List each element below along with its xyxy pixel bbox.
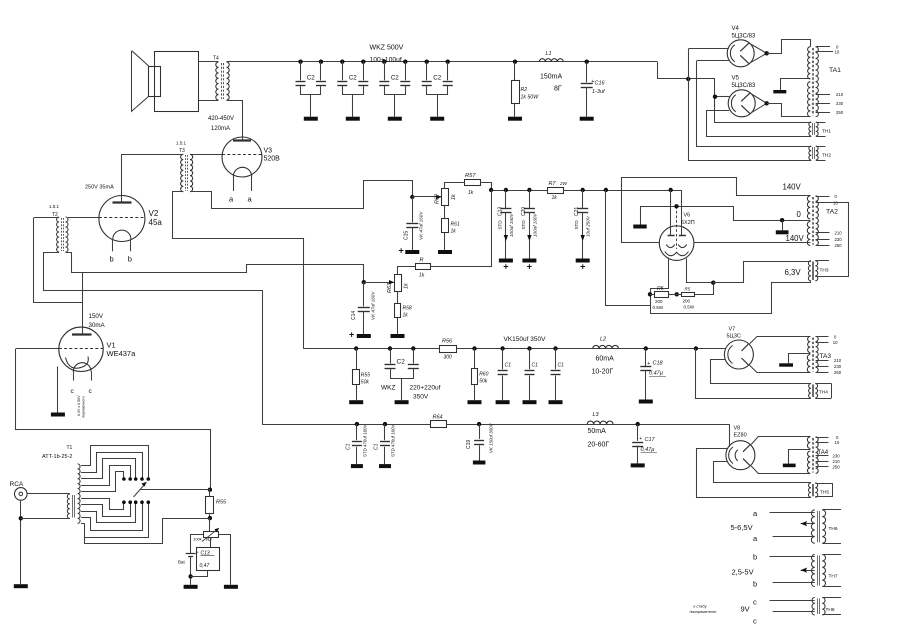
svg-text:8Г: 8Г [554,86,562,93]
svg-text:C2: C2 [397,359,406,366]
svg-text:6Х2П: 6Х2П [681,220,695,226]
svg-text:STD: STD [574,220,579,230]
svg-text:350V: 350V [413,394,429,401]
svg-text:T1: T1 [67,445,73,451]
svg-text:TA3: TA3 [820,353,832,360]
svg-text:210: 210 [835,230,843,235]
svg-text:RCA: RCA [10,481,24,488]
svg-text:+: + [503,262,508,272]
svg-text:R63: R63 [387,282,393,293]
svg-text:2,5-5V: 2,5-5V [732,568,754,577]
svg-text:VK 150uf 350V: VK 150uf 350V [489,422,494,453]
svg-text:+: + [580,262,585,272]
svg-text:VK150uf 350V: VK150uf 350V [504,336,547,343]
svg-text:C16: C16 [595,81,606,87]
svg-text:R56: R56 [442,339,453,345]
svg-text:R5: R5 [685,286,691,291]
svg-text:TH2: TH2 [822,153,831,159]
svg-text:1k: 1k [404,283,410,289]
svg-text:b: b [753,580,757,589]
svg-text:230: 230 [835,237,843,242]
svg-text:1.5:1: 1.5:1 [49,204,60,209]
svg-text:переменного: переменного [82,396,86,418]
svg-text:C18: C18 [653,361,664,367]
svg-text:VK 47uf 160V: VK 47uf 160V [419,211,424,240]
svg-text:C15: C15 [404,231,410,240]
svg-text:L3: L3 [593,412,600,418]
svg-text:TH7: TH7 [829,574,838,580]
svg-text:120mA: 120mA [211,126,230,132]
svg-text:230: 230 [836,101,844,106]
svg-text:EZ80: EZ80 [734,433,747,439]
svg-text:0.5W: 0.5W [653,305,664,310]
svg-text:1k: 1k [451,229,457,235]
svg-text:1k: 1k [403,313,409,319]
svg-text:C19: C19 [466,440,472,449]
svg-text:2W: 2W [559,181,568,186]
svg-text:TH6: TH6 [829,526,838,532]
svg-text:C1: C1 [346,443,352,450]
svg-text:1.5:1: 1.5:1 [176,141,187,146]
svg-text:0: 0 [797,210,802,219]
svg-text:C2: C2 [433,75,441,82]
svg-text:100k: 100k [193,537,203,542]
svg-text:b: b [128,255,132,264]
svg-text:210: 210 [836,92,844,97]
svg-text:C1: C1 [505,363,512,369]
svg-text:520B: 520B [264,156,281,163]
svg-text:WE437a: WE437a [107,349,137,358]
svg-text:T4: T4 [213,56,219,62]
svg-text:1k 50W: 1k 50W [521,95,540,101]
svg-text:T3: T3 [179,148,185,154]
svg-text:V5: V5 [732,76,740,82]
svg-text:C17: C17 [645,437,656,443]
svg-text:Bat: Bat [178,560,186,565]
svg-text:C1: C1 [558,363,565,369]
svg-text:140V: 140V [783,183,802,192]
svg-text:30mA: 30mA [89,322,106,329]
svg-text:1k: 1k [419,273,425,279]
svg-text:C2: C2 [391,75,399,82]
svg-text:R61: R61 [451,222,460,228]
svg-text:5-6,5V: 5-6,5V [731,523,753,532]
svg-text:200: 200 [655,299,663,304]
svg-text:220+220uf: 220+220uf [410,385,441,392]
svg-text:C2: C2 [307,75,315,82]
svg-text:420-450V: 420-450V [208,116,234,122]
svg-text:0.47µ: 0.47µ [649,371,663,377]
svg-text:R7: R7 [549,181,557,187]
svg-text:50k: 50k [361,380,370,386]
svg-text:TH1: TH1 [822,129,831,135]
svg-text:к стабу: к стабу [694,604,707,609]
svg-text:R: R [420,258,424,264]
svg-text:R5: R5 [657,286,664,292]
svg-text:V7: V7 [729,327,736,333]
svg-text:+: + [349,330,354,340]
svg-text:+: + [527,262,532,272]
svg-text:0,47µ: 0,47µ [641,447,655,453]
svg-text:C1: C1 [374,443,380,450]
svg-text:10: 10 [833,340,838,345]
svg-text:WKZ 500V: WKZ 500V [370,45,404,52]
svg-text:TH4: TH4 [819,390,828,396]
svg-text:5Ц3С/83: 5Ц3С/83 [732,34,756,40]
svg-text:TA4: TA4 [818,450,829,456]
svg-text:R64: R64 [433,415,443,421]
svg-text:+: + [639,436,642,442]
svg-text:140V: 140V [786,234,805,243]
svg-text:ATT-1b-25-2: ATT-1b-25-2 [42,454,72,460]
svg-text:STD 470uf 160V: STD 470uf 160V [391,424,396,457]
svg-text:250V 35mA: 250V 35mA [85,185,114,191]
svg-text:L2: L2 [600,337,606,343]
svg-text:230: 230 [834,364,842,369]
svg-text:L1: L1 [546,51,552,57]
svg-text:10uf 250V: 10uf 250V [586,215,591,237]
svg-text:STD 470uf 160V: STD 470uf 160V [363,424,368,457]
svg-text:5Ц3С/83: 5Ц3С/83 [732,83,756,89]
svg-text:10-20Г: 10-20Г [592,369,614,376]
svg-text:c: c [753,598,757,607]
svg-text:100+100uf: 100+100uf [370,57,402,64]
svg-text:250: 250 [833,465,841,470]
svg-text:20-60Г: 20-60Г [588,442,610,449]
svg-text:TA2: TA2 [826,209,838,216]
svg-text:0,47: 0,47 [200,563,210,569]
svg-text:1k: 1k [468,190,474,196]
svg-text:250: 250 [834,370,842,375]
svg-text:210: 210 [834,358,842,363]
svg-text:TH8: TH8 [826,607,835,613]
svg-text:250: 250 [836,110,844,115]
svg-text:100uf 160V: 100uf 160V [532,213,537,237]
svg-text:/выпрямителю: /выпрямителю [690,609,717,614]
svg-text:210: 210 [833,459,841,464]
svg-text:STD: STD [497,220,502,230]
svg-text:C21: C21 [574,207,580,216]
svg-text:+: + [647,361,650,367]
svg-text:150V: 150V [89,313,104,320]
svg-text:1k: 1k [552,195,558,201]
svg-text:6,3V х 0,56V: 6,3V х 0,56V [77,395,81,416]
svg-text:c: c [753,617,757,626]
svg-text:R62: R62 [435,194,441,204]
svg-text:R57: R57 [465,173,476,179]
svg-text:50mA: 50mA [588,428,607,435]
svg-text:VK 47uf 160V: VK 47uf 160V [371,291,376,320]
svg-text:C14: C14 [351,311,357,320]
svg-text:100uf 160V: 100uf 160V [509,213,514,237]
svg-text:50k: 50k [479,379,488,385]
svg-text:9V: 9V [741,605,750,614]
svg-text:b: b [110,255,114,264]
svg-text:V3: V3 [264,148,273,155]
svg-text:V8: V8 [734,426,741,432]
svg-text:150mA: 150mA [540,74,563,81]
svg-text:R58: R58 [403,306,412,312]
svg-text:+: + [399,246,404,256]
svg-text:C2: C2 [349,75,357,82]
svg-text:R2: R2 [206,537,212,542]
svg-text:5ЦЗС: 5ЦЗС [727,334,741,340]
svg-text:R55: R55 [216,500,227,506]
svg-text:1-3uf: 1-3uf [592,89,605,95]
svg-text:TA1: TA1 [829,67,841,74]
svg-text:C1: C1 [532,363,539,369]
svg-text:V6: V6 [684,213,691,219]
svg-text:0.5W: 0.5W [684,304,695,309]
svg-text:C13: C13 [497,207,503,216]
svg-text:250: 250 [835,243,843,248]
svg-text:R55: R55 [361,373,370,379]
svg-text:10: 10 [835,440,840,445]
svg-text:60mA: 60mA [596,356,615,363]
svg-text:b: b [753,553,757,562]
svg-text:TH5: TH5 [820,490,829,496]
svg-text:10: 10 [835,50,840,55]
svg-text:1k: 1k [451,194,457,200]
svg-text:R60: R60 [479,372,488,378]
svg-text:V4: V4 [732,26,740,32]
svg-text:45a: 45a [149,218,163,227]
svg-text:TH3: TH3 [820,268,829,274]
svg-text:300: 300 [444,355,453,361]
svg-text:R2: R2 [521,87,528,93]
svg-text:STD: STD [521,220,526,230]
svg-text:6,3V: 6,3V [785,268,802,277]
svg-text:WKZ: WKZ [381,385,395,392]
svg-text:230: 230 [833,454,841,459]
svg-text:C20: C20 [521,207,527,216]
svg-text:200: 200 [683,298,691,303]
svg-text:V2: V2 [149,209,159,218]
